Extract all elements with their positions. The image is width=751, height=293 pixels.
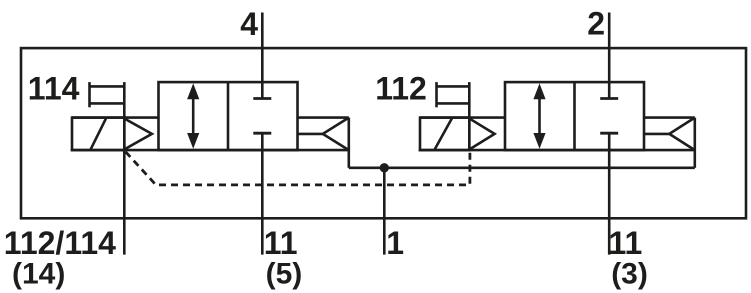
valve V2 blocked port bar bottom — [600, 132, 618, 135]
coil 112 bracket left pin — [435, 82, 438, 107]
svg-text:112/114: 112/114 — [4, 225, 116, 261]
coil 112 bracket top bar — [437, 85, 470, 88]
junction dot node 1 — [380, 163, 389, 172]
coil 112 bracket right pin — [468, 82, 471, 150]
coil 114 bracket left pin — [88, 82, 91, 107]
svg-text:112: 112 — [375, 70, 427, 106]
valve V2 blocked port bar top — [600, 97, 618, 100]
svg-text:11: 11 — [264, 225, 298, 261]
coil 114 bracket right pin — [123, 82, 126, 150]
coil 112 bracket lower bar — [437, 102, 470, 105]
spring V1 middle line — [298, 133, 323, 136]
valve V2 body — [505, 82, 644, 150]
svg-text:(5): (5) — [266, 258, 303, 291]
spring V2 middle line — [644, 133, 669, 136]
pilot triangle V2 — [470, 119, 495, 149]
spring V2 right edge — [693, 118, 696, 168]
coil 114 top link line — [72, 116, 159, 119]
valve V1 flow arrow head bottom — [187, 133, 199, 149]
pilot line dashed — [126, 151, 470, 185]
valve V1 blocked port bar bottom — [253, 132, 271, 135]
svg-text:11: 11 — [609, 225, 643, 261]
svg-text:2: 2 — [587, 6, 605, 42]
spring V2 chevron — [669, 118, 695, 151]
enclosure frame — [21, 48, 746, 218]
wire port 1 — [383, 168, 386, 255]
valve V1 divider — [227, 82, 230, 150]
svg-text:4: 4 — [240, 6, 258, 42]
valve V1 blocked port bar top — [253, 97, 271, 100]
solenoid coil 112 diagonal — [434, 118, 452, 151]
coil 114 bottom rail — [71, 149, 349, 152]
coil 114 bracket lower bar — [90, 102, 125, 105]
spring V1 right edge — [347, 118, 350, 168]
valve V2 flow arrow head top — [533, 83, 545, 99]
valve V1 flow arrow shaft — [192, 96, 195, 136]
valve V1 body — [159, 82, 298, 150]
valve V1 flow arrow head top — [187, 83, 199, 99]
valve V2 flow arrow shaft — [538, 96, 541, 136]
wire port 11(3) — [608, 133, 611, 254]
wire port 2 — [608, 13, 611, 99]
wire port 112/114 — [123, 150, 126, 255]
spring V1 top line — [298, 116, 349, 119]
valve V2 flow arrow head bottom — [533, 133, 545, 149]
svg-text:1: 1 — [386, 225, 404, 261]
svg-text:(3): (3) — [611, 258, 648, 291]
valve V2 divider — [573, 82, 576, 150]
coil 112 bottom rail — [419, 149, 695, 152]
supply rail node 1 — [349, 167, 695, 170]
pilot triangle V1 — [125, 119, 152, 149]
coil 114 bracket top bar — [90, 85, 125, 88]
coil 112 top link line — [420, 116, 505, 119]
solenoid coil 112 box — [420, 118, 469, 151]
svg-text:(14): (14) — [12, 258, 65, 291]
solenoid coil 114 diagonal — [90, 118, 106, 151]
spring V2 top line — [644, 116, 695, 119]
wire port 11(5) — [261, 133, 264, 254]
solenoid coil 114 box — [72, 118, 124, 151]
wire port 4 — [261, 13, 264, 99]
svg-text:114: 114 — [28, 70, 80, 106]
spring V1 chevron — [323, 118, 349, 151]
